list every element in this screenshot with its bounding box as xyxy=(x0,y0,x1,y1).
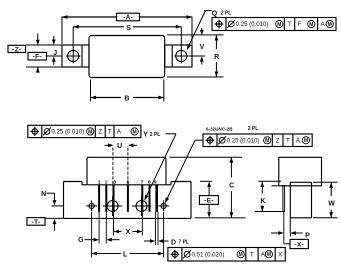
mounting screw hole left xyxy=(107,201,118,212)
top view: right tab inner edge xyxy=(171,45,173,67)
svg-text:-F-: -F- xyxy=(33,54,42,61)
dimension -A- boxed label xyxy=(117,13,140,21)
pins (leads) xyxy=(98,185,100,212)
dimension -A- extension lines xyxy=(61,17,63,45)
top view: left mounting tab xyxy=(62,45,89,67)
svg-text:T: T xyxy=(250,251,254,258)
datum -X- flag xyxy=(290,239,308,248)
right hole centerlines xyxy=(174,55,188,57)
body bottom edge extension line right xyxy=(167,76,224,78)
pin 2 extension line xyxy=(105,212,107,244)
svg-text:Z: Z xyxy=(98,129,102,136)
flange boss left edge extension for P xyxy=(289,218,291,237)
datum -T- flag xyxy=(27,218,45,226)
svg-text:P: P xyxy=(305,233,310,240)
svg-text:-X-: -X- xyxy=(294,241,304,248)
pin 7 extension line xyxy=(141,212,143,236)
svg-text:L: L xyxy=(123,251,128,258)
datum -F- flag xyxy=(28,52,47,60)
svg-text:R: R xyxy=(214,54,219,61)
svg-text:M: M xyxy=(328,22,332,28)
callout Y leader to right screw hole xyxy=(166,133,177,135)
flange top extension line for -E- xyxy=(200,180,212,182)
svg-text:Q: Q xyxy=(212,11,218,18)
datum -E- flag with center-plane arrows xyxy=(199,196,218,205)
dimension D arrows at pin 9 xyxy=(144,240,150,242)
svg-text:M: M xyxy=(265,138,269,144)
svg-text:V: V xyxy=(200,44,205,51)
pin 9 (lead) xyxy=(155,185,158,212)
small locating hole left (Y) xyxy=(89,203,94,208)
hole centerline extension left for N xyxy=(52,205,64,207)
side view: lead (two edges) xyxy=(282,185,284,212)
dimension W line with arrows xyxy=(330,182,332,196)
svg-text:X: X xyxy=(278,251,282,258)
front view: case body xyxy=(87,157,166,185)
svg-text:C: C xyxy=(229,182,234,189)
tab bottom edge extension line xyxy=(26,66,62,68)
dimension S line with arrows xyxy=(73,26,124,28)
top view: left mounting hole xyxy=(68,50,79,61)
svg-text:Z: Z xyxy=(276,137,280,144)
seating plane line xyxy=(195,217,246,219)
svg-text:A: A xyxy=(117,129,122,136)
dimension U arrows xyxy=(105,144,109,146)
small locating hole right (Y) xyxy=(161,203,166,208)
top view: left tab inner edge xyxy=(81,45,83,67)
side view: lead extension down to datum -X- xyxy=(283,212,285,244)
dimension W extension lines xyxy=(313,181,338,183)
dimension V lower arrow xyxy=(201,61,203,64)
svg-text:2 PL: 2 PL xyxy=(248,126,259,132)
svg-text:F: F xyxy=(298,21,302,28)
leader from 6-32 frame to small right hole xyxy=(195,139,203,141)
svg-text:S: S xyxy=(126,25,131,32)
front view: flange top edge segments xyxy=(64,181,83,183)
side view: case body xyxy=(279,157,322,186)
mounting screw hole right xyxy=(136,201,147,212)
svg-text:U: U xyxy=(117,143,122,150)
dimension X line with arrows xyxy=(114,231,122,233)
svg-text:J: J xyxy=(53,50,57,57)
pin 9 edge extension lines for D xyxy=(154,212,156,245)
svg-text:A: A xyxy=(321,21,326,28)
svg-text:6-32UNC-2B: 6-32UNC-2B xyxy=(206,126,233,131)
svg-text:0.25 (0.010): 0.25 (0.010) xyxy=(236,21,269,28)
svg-text:M: M xyxy=(309,22,313,28)
dimension J arrows xyxy=(53,36,55,40)
datum -Z- extension line to tab top edge xyxy=(26,44,63,46)
svg-text:-Z-: -Z- xyxy=(12,46,21,53)
left hole centerlines xyxy=(66,55,80,57)
dimension B line with arrows xyxy=(91,97,122,99)
feature control frame 6-32: position dia 0.25 (0.010) M | Z | T | A M xyxy=(203,134,312,147)
svg-text:D: D xyxy=(171,239,176,246)
hole centerline extension to datum -F- xyxy=(47,55,63,57)
callout Q leader line xyxy=(204,10,212,12)
svg-text:7 PL: 7 PL xyxy=(179,240,190,246)
dimension L line with arrows xyxy=(92,253,121,255)
datum -Z- flag xyxy=(8,45,26,52)
svg-text:K: K xyxy=(260,198,265,205)
svg-text:Y: Y xyxy=(143,132,148,139)
front view: case base step edges xyxy=(81,182,83,185)
top view: package body xyxy=(89,36,165,78)
dimension C line with arrows xyxy=(230,157,232,177)
svg-text:T: T xyxy=(288,21,292,28)
flange top extension line for K xyxy=(258,180,281,182)
svg-text:X: X xyxy=(126,229,131,236)
dimension V upper arrow xyxy=(201,28,203,30)
dimension R line with arrows xyxy=(215,35,217,49)
feature control frame: position dia 0.25 (0.010) M | T | F M | A M xyxy=(212,18,336,31)
front view: mounting flange outline xyxy=(63,182,65,219)
svg-text:G: G xyxy=(78,237,84,244)
dimension G arrows xyxy=(85,239,94,241)
right mounting hole xyxy=(176,50,187,61)
svg-text:W: W xyxy=(328,201,335,208)
flange bottom extension to datum -T- xyxy=(45,217,64,219)
dimension U extension lines (pin centerlines) xyxy=(112,148,114,185)
svg-text:-E-: -E- xyxy=(204,197,214,204)
svg-text:T: T xyxy=(108,129,112,136)
svg-text:M: M xyxy=(267,252,271,258)
svg-text:M: M xyxy=(88,129,92,135)
svg-text:T: T xyxy=(286,137,290,144)
dimension C top extension line xyxy=(170,156,243,158)
feature control frame Y: position dia 0.25 (0.010) M | Z | T | A M xyxy=(28,125,141,137)
side view: flange boss xyxy=(290,181,311,183)
svg-text:0.25 (0.010): 0.25 (0.010) xyxy=(51,129,84,136)
svg-text:-A-: -A- xyxy=(123,14,133,21)
svg-text:0.25 (0.010): 0.25 (0.010) xyxy=(227,137,260,144)
body top edge extension line right xyxy=(167,34,224,36)
svg-text:B: B xyxy=(124,96,129,103)
dimension K line with arrows xyxy=(261,181,263,193)
dimension P arrows xyxy=(271,232,278,234)
svg-text:M: M xyxy=(133,129,137,135)
svg-text:M: M xyxy=(239,252,243,258)
dimension B extension lines xyxy=(90,80,92,102)
dimension L extension lines xyxy=(91,212,93,258)
svg-text:-T-: -T- xyxy=(32,219,41,226)
svg-text:M: M xyxy=(304,138,308,144)
feature control frame D: position dia 0.51 (0.020) M | T | A M | X xyxy=(168,248,285,262)
svg-text:2 PL: 2 PL xyxy=(150,132,161,138)
top view: right mounting tab xyxy=(165,45,192,67)
pin 1 extension line xyxy=(98,212,100,244)
pin 3 extension line xyxy=(113,212,115,236)
svg-text:A: A xyxy=(296,137,301,144)
dimension N lower arrow xyxy=(54,224,56,231)
datum -X- tick to lead extension xyxy=(284,243,290,245)
svg-text:N: N xyxy=(41,191,46,198)
case bottom stub extension xyxy=(272,185,279,187)
svg-text:2 PL: 2 PL xyxy=(221,11,232,17)
svg-text:M: M xyxy=(277,22,281,28)
dimension -A- line with arrows xyxy=(62,16,117,18)
dimension K bottom extension line (lead tip) xyxy=(255,211,285,213)
svg-text:0.51 (0.020): 0.51 (0.020) xyxy=(192,251,225,258)
datum -F- center-plane arrows xyxy=(37,34,39,40)
